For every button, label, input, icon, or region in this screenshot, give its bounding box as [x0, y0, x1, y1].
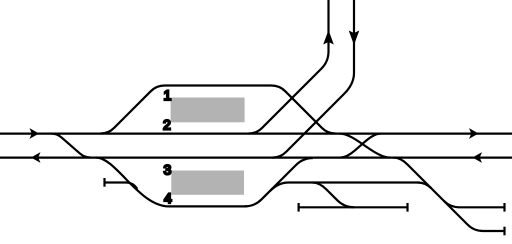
arrow track 3 west: [31, 152, 41, 163]
svg-text:2: 2: [163, 117, 171, 133]
track 3 main line: [0, 157, 512, 159]
platform 1/2 island: [171, 98, 245, 123]
bypass to middle siding connector: [313, 183, 355, 208]
track 1 west turnout: [101, 86, 165, 134]
branch west track (up line): [249, 0, 329, 134]
east scissors crossover ascending: [341, 134, 382, 158]
west crossover track 2 to track 3: [51, 134, 91, 158]
southeast lower siding buffer stop: [503, 227, 505, 236]
southeast lower siding: [483, 230, 505, 232]
platform 3/4 island: [171, 171, 244, 195]
west stub siding: [105, 183, 137, 189]
middle siding west buffer stop: [298, 203, 300, 212]
arrow branch up: [323, 30, 334, 45]
branch east track (down line): [272, 0, 354, 158]
track 1 east connector to track 2: [272, 86, 336, 134]
yard bypass track: [270, 183, 420, 192]
east scissors crossover descending: [340, 134, 391, 158]
arrow branch down: [349, 31, 360, 46]
bypass east merge curve: [418, 183, 432, 189]
track 4 east connector to track 3: [245, 158, 314, 206]
southeast upper siding: [444, 201, 505, 207]
svg-text:3: 3: [164, 162, 172, 178]
arrow track 3 east: [473, 152, 483, 163]
arrow track 2 west: [30, 128, 40, 139]
west stub buffer stop: [103, 178, 105, 187]
svg-text:1: 1: [164, 87, 172, 103]
southeast upper siding buffer stop: [503, 203, 505, 212]
track 2 main line: [0, 133, 512, 135]
arrow track 2 east: [469, 128, 479, 139]
track 1 loop: [165, 84, 272, 86]
svg-text:4: 4: [164, 190, 172, 206]
middle siding east buffer stop: [406, 203, 408, 212]
track 4 loop: [169, 205, 247, 207]
track 4 west connector: [96, 158, 169, 207]
southeast yard lead: [393, 158, 483, 232]
middle siding: [299, 206, 408, 208]
